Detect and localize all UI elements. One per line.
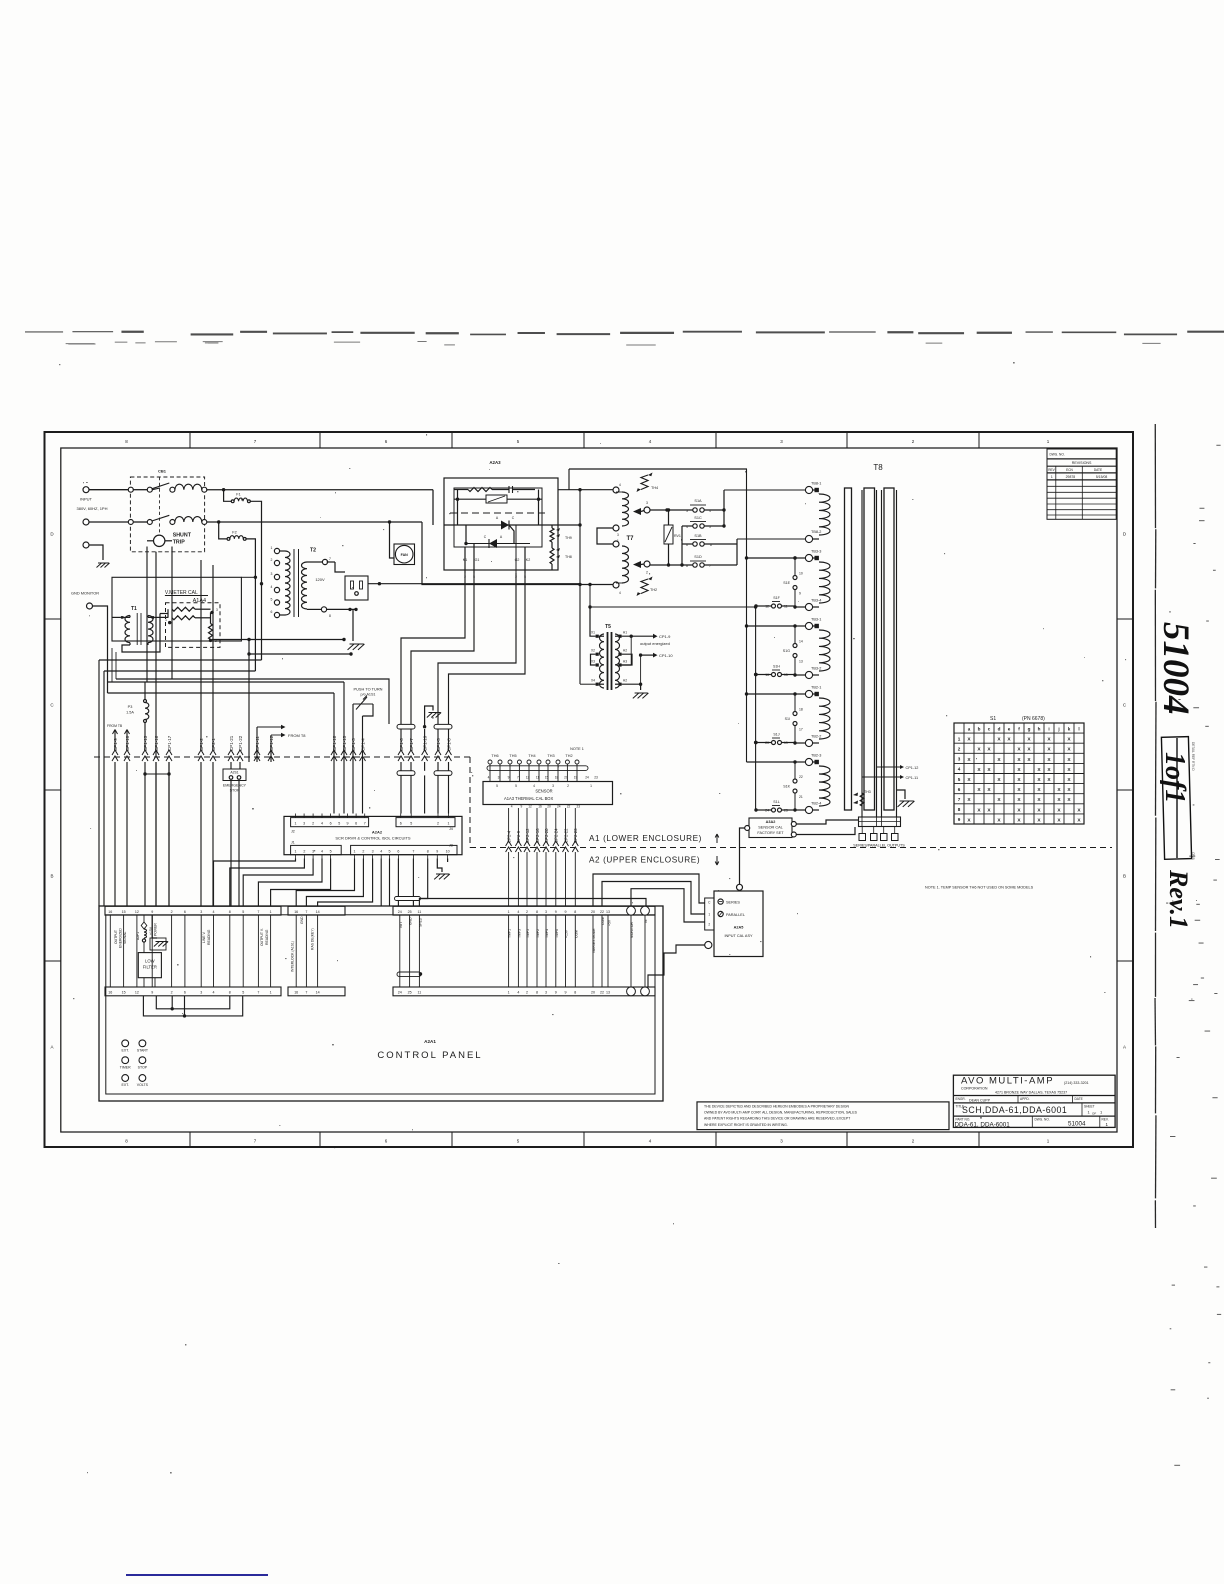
revision table bbox=[1047, 449, 1116, 519]
svg-text:7: 7 bbox=[329, 557, 331, 561]
svg-text:24: 24 bbox=[557, 805, 561, 809]
svg-text:22: 22 bbox=[600, 991, 604, 995]
svg-text:18: 18 bbox=[799, 708, 803, 712]
svg-text:A1A3 THERMAL CAL BOX: A1A3 THERMAL CAL BOX bbox=[504, 796, 553, 801]
wires A2A2 J3 to panel bbox=[296, 859, 428, 907]
svg-text:17: 17 bbox=[799, 728, 803, 732]
svg-text:TB3-1: TB3-1 bbox=[811, 618, 821, 622]
svg-text:3: 3 bbox=[545, 991, 547, 995]
svg-text:OWNED BY AVO MULTI-AMP CORP. A: OWNED BY AVO MULTI-AMP CORP. ALL DESIGN,… bbox=[704, 1111, 858, 1115]
thermal TH4 bbox=[637, 473, 659, 493]
svg-text:9: 9 bbox=[799, 592, 801, 596]
svg-text:4: 4 bbox=[619, 591, 621, 595]
svg-text:5: 5 bbox=[242, 910, 244, 914]
sensor cal box A3A2 bbox=[745, 818, 859, 838]
svg-text:READING: READING bbox=[207, 929, 211, 945]
svg-text:TH3: TH3 bbox=[864, 790, 871, 794]
svg-text:S1I: S1I bbox=[785, 717, 790, 721]
svg-text:TMP2: TMP2 bbox=[536, 929, 540, 938]
svg-text:G2: G2 bbox=[515, 558, 520, 562]
svg-text:ENGR.: ENGR. bbox=[956, 1097, 966, 1101]
svg-text:1: 1 bbox=[708, 913, 710, 917]
svg-text:F1: F1 bbox=[236, 493, 240, 497]
svg-text:TIMER: TIMER bbox=[120, 1065, 131, 1069]
thermal breaker TH9 bbox=[550, 528, 572, 542]
svg-text:i: i bbox=[1048, 726, 1049, 731]
ground T8 output bbox=[897, 790, 915, 807]
svg-text:COM: COM bbox=[574, 930, 578, 938]
svg-text:5: 5 bbox=[515, 784, 517, 788]
svg-text:6: 6 bbox=[184, 910, 186, 914]
svg-text:INPUT CAL ASY: INPUT CAL ASY bbox=[724, 934, 753, 938]
svg-text:1: 1 bbox=[270, 910, 272, 914]
svg-text:S1D: S1D bbox=[694, 555, 702, 559]
svg-text:8: 8 bbox=[536, 910, 538, 914]
thermal cal box A1A3 bbox=[483, 782, 613, 805]
svg-text:51004: 51004 bbox=[1068, 1121, 1086, 1128]
svg-text:5: 5 bbox=[389, 850, 391, 854]
svg-text:X4: X4 bbox=[591, 679, 595, 683]
svg-text:SIGNAL: SIGNAL bbox=[123, 931, 127, 944]
svg-text:24: 24 bbox=[398, 991, 402, 995]
svg-text:3: 3 bbox=[617, 533, 619, 537]
svg-text:H1: H1 bbox=[623, 631, 627, 635]
transformer T7 bbox=[597, 483, 650, 595]
svg-text:23: 23 bbox=[577, 805, 581, 809]
svg-text:A2S1: A2S1 bbox=[230, 771, 238, 775]
svg-text:B: B bbox=[1123, 874, 1126, 879]
svg-text:1: 1 bbox=[508, 910, 510, 914]
svg-text:DWG. NO.: DWG. NO. bbox=[1050, 453, 1065, 457]
svg-text:2: 2 bbox=[567, 784, 569, 788]
svg-text:IN: IN bbox=[644, 919, 648, 923]
svg-text:1: 1 bbox=[165, 618, 167, 622]
switch table S1 PN 6678 bbox=[954, 716, 1084, 824]
svg-text:INTERLOCK (A1S1): INTERLOCK (A1S1) bbox=[291, 941, 295, 972]
wire bus left risers bbox=[99, 648, 116, 682]
svg-text:TH3: TH3 bbox=[547, 754, 554, 758]
outlet receptacle 120V bbox=[327, 562, 368, 600]
svg-text:CP1-9: CP1-9 bbox=[659, 634, 671, 639]
svg-text:TH6: TH6 bbox=[491, 754, 498, 758]
svg-text:X2: X2 bbox=[591, 649, 595, 653]
input terminals bbox=[77, 487, 131, 548]
svg-text:K2: K2 bbox=[526, 558, 530, 562]
svg-text:2: 2 bbox=[646, 571, 648, 575]
wires CP1 row continuation below bbox=[115, 560, 390, 906]
svg-text:PUSH TO TURN: PUSH TO TURN bbox=[354, 687, 383, 692]
svg-text:13: 13 bbox=[799, 660, 803, 664]
svg-text:INIT: INIT bbox=[399, 922, 403, 928]
svg-text:6: 6 bbox=[184, 991, 186, 995]
T8 winding TB2-3/4 group with switches S1K S1L bbox=[754, 754, 830, 814]
switch S1B bbox=[682, 534, 737, 547]
svg-text:6: 6 bbox=[958, 787, 961, 792]
svg-text:1.5A: 1.5A bbox=[126, 711, 134, 715]
svg-text:A2A3: A2A3 bbox=[489, 460, 501, 465]
svg-text:380V, 60HZ, 1PH: 380V, 60HZ, 1PH bbox=[77, 506, 108, 511]
terminals ext volts bbox=[121, 1075, 148, 1088]
svg-text:TB2-1: TB2-1 bbox=[811, 686, 821, 690]
svg-text:READING: READING bbox=[265, 929, 269, 945]
svg-text:3: 3 bbox=[372, 850, 374, 854]
svg-text:9: 9 bbox=[555, 910, 557, 914]
svg-text:STOP: STOP bbox=[138, 1065, 148, 1069]
svg-text:+15V: +15V bbox=[565, 929, 569, 938]
svg-text:1: 1 bbox=[354, 850, 356, 854]
voltmeter cal box A1A4 bbox=[112, 577, 241, 647]
svg-text:5: 5 bbox=[338, 822, 340, 826]
svg-text:4: 4 bbox=[958, 767, 961, 772]
panel internal loops bbox=[143, 996, 242, 1018]
svg-text:2: 2 bbox=[312, 822, 314, 826]
svg-text:T8: T8 bbox=[873, 463, 883, 472]
svg-text:CP1-11: CP1-11 bbox=[906, 776, 919, 780]
svg-text:GND MONITOR: GND MONITOR bbox=[71, 591, 99, 596]
wire T2 pin8 to ground bbox=[327, 608, 365, 650]
svg-text:16: 16 bbox=[538, 805, 542, 809]
signal CP1-10 bbox=[622, 636, 674, 698]
SCR assembly A2A3 bbox=[444, 460, 580, 579]
svg-text:a: a bbox=[968, 726, 971, 731]
svg-text:9: 9 bbox=[151, 910, 153, 914]
svg-text:FAN: FAN bbox=[401, 553, 409, 557]
T8 winding TB8-1 TB8-2 bbox=[805, 482, 830, 543]
svg-text:7: 7 bbox=[364, 822, 366, 826]
signal CP1-11 bbox=[862, 775, 918, 780]
svg-text:GND: GND bbox=[409, 917, 413, 925]
wire switch bus right bbox=[754, 605, 757, 810]
svg-text:1: 1 bbox=[958, 736, 961, 741]
svg-text:S1K: S1K bbox=[783, 785, 790, 789]
svg-text:OUTPUT: OUTPUT bbox=[114, 930, 118, 944]
svg-text:d: d bbox=[998, 726, 1001, 731]
svg-text:7: 7 bbox=[257, 910, 259, 914]
svg-text:AVO MULTI-AMP: AVO MULTI-AMP bbox=[961, 1076, 1054, 1087]
svg-text:TMP1: TMP1 bbox=[508, 929, 512, 938]
svg-text:F2: F2 bbox=[232, 530, 236, 534]
svg-text:15: 15 bbox=[122, 991, 126, 995]
svg-text:6: 6 bbox=[397, 850, 399, 854]
svg-text:4: 4 bbox=[533, 784, 535, 788]
svg-text:4: 4 bbox=[380, 850, 382, 854]
svg-text:FROM TB: FROM TB bbox=[107, 724, 123, 728]
svg-text:h: h bbox=[1038, 726, 1041, 731]
sheet border frame bbox=[45, 432, 1134, 1147]
svg-text:SHEET: SHEET bbox=[1084, 1105, 1095, 1109]
svg-text:S1C: S1C bbox=[694, 516, 702, 520]
svg-text:REVISIONS: REVISIONS bbox=[1072, 461, 1092, 465]
svg-text:/SERIES MODE: /SERIES MODE bbox=[592, 928, 596, 953]
svg-text:TH5: TH5 bbox=[509, 754, 516, 758]
svg-text:EXT.: EXT. bbox=[121, 1083, 129, 1087]
ground panel bbox=[150, 915, 168, 950]
svg-text:6: 6 bbox=[355, 822, 357, 826]
svg-text:TH8: TH8 bbox=[565, 555, 572, 559]
wire A1A4 ground link bbox=[212, 638, 353, 762]
svg-text:22: 22 bbox=[567, 805, 571, 809]
svg-text:9: 9 bbox=[521, 805, 523, 809]
svg-text:A: A bbox=[50, 1045, 53, 1050]
svg-text:J2: J2 bbox=[291, 830, 295, 834]
svg-text:TMP3: TMP3 bbox=[517, 929, 521, 938]
svg-text:8: 8 bbox=[427, 850, 429, 854]
svg-text:PARALLEL: PARALLEL bbox=[726, 913, 745, 917]
svg-text:A2 (UPPER ENCLOSURE): A2 (UPPER ENCLOSURE) bbox=[589, 856, 700, 865]
svg-text:25: 25 bbox=[408, 991, 412, 995]
svg-text:TH2: TH2 bbox=[650, 588, 657, 592]
svg-text:13: 13 bbox=[606, 910, 610, 914]
fuse P3 bbox=[126, 682, 149, 750]
arrows from TB top-left bbox=[107, 724, 130, 750]
enclosure labels A1 A2 bbox=[589, 834, 719, 865]
wires A2A2 J1 to panel bbox=[214, 859, 331, 907]
svg-text:DEAN CUPP: DEAN CUPP bbox=[969, 1098, 991, 1102]
svg-text:DATE: DATE bbox=[1094, 468, 1102, 472]
svg-text:16: 16 bbox=[108, 991, 112, 995]
svg-text:1: 1 bbox=[295, 850, 297, 854]
svg-text:3: 3 bbox=[312, 850, 314, 854]
wires panel to input cal bbox=[397, 874, 705, 987]
svg-text:4: 4 bbox=[511, 805, 513, 809]
svg-text:VOLTS: VOLTS bbox=[137, 1083, 149, 1087]
svg-text:SHLD: SHLD bbox=[419, 917, 423, 927]
svg-text:TB3-4: TB3-4 bbox=[811, 599, 821, 603]
switch S1C bbox=[682, 516, 724, 529]
signal CP1-9 output energized bbox=[622, 634, 672, 646]
svg-text:H2: H2 bbox=[623, 679, 627, 683]
svg-text:14: 14 bbox=[316, 910, 320, 914]
svg-text:4: 4 bbox=[517, 991, 519, 995]
svg-text:j: j bbox=[1057, 726, 1059, 731]
svg-text:2: 2 bbox=[708, 923, 710, 927]
svg-text:TRIP: TRIP bbox=[173, 540, 186, 546]
cable shield markers bbox=[397, 724, 452, 775]
thermal breaker TH8 bbox=[550, 525, 572, 570]
terminals ext start bbox=[121, 1040, 148, 1053]
svg-text:4: 4 bbox=[271, 585, 273, 589]
svg-text:G1: G1 bbox=[475, 558, 480, 562]
svg-text:25: 25 bbox=[408, 910, 412, 914]
svg-text:7: 7 bbox=[257, 991, 259, 995]
ground shield CP1-19 bbox=[425, 706, 442, 814]
svg-text:EMERGENCY: EMERGENCY bbox=[223, 784, 247, 788]
svg-text:1of1: 1of1 bbox=[1159, 752, 1190, 803]
svg-text:J1: J1 bbox=[291, 841, 295, 845]
svg-text:20: 20 bbox=[547, 805, 551, 809]
svg-text:SERIES: SERIES bbox=[726, 901, 740, 905]
svg-text:15: 15 bbox=[122, 910, 126, 914]
driver box A2A2 bbox=[284, 814, 462, 859]
svg-text:T7: T7 bbox=[626, 536, 634, 542]
svg-text:9: 9 bbox=[958, 817, 961, 822]
svg-text:CP1-17: CP1-17 bbox=[167, 735, 172, 751]
svg-text:THE DEVICE DEPICTED AND DESCRI: THE DEVICE DEPICTED AND DESCRIBED HEREON… bbox=[704, 1104, 849, 1108]
svg-text:3: 3 bbox=[646, 501, 648, 505]
svg-text:SHUNT: SHUNT bbox=[173, 533, 192, 539]
wire SCR output bus bbox=[422, 469, 747, 684]
svg-text:1: 1 bbox=[295, 822, 297, 826]
varistor RV1 bbox=[664, 508, 681, 566]
svg-text:CP1-22: CP1-22 bbox=[238, 735, 243, 751]
svg-text:15: 15 bbox=[545, 776, 549, 780]
svg-text:9: 9 bbox=[347, 822, 349, 826]
circuit breaker CB1 bbox=[128, 469, 207, 552]
svg-text:4: 4 bbox=[517, 910, 519, 914]
push-to-turn switch A1S1 bbox=[353, 687, 383, 763]
svg-text:NOTE 1: NOTE 1 bbox=[570, 747, 584, 751]
svg-text:4: 4 bbox=[213, 991, 215, 995]
svg-text:b: b bbox=[978, 726, 981, 731]
svg-text:SERIES/PARALLEL OUTPUTS: SERIES/PARALLEL OUTPUTS bbox=[853, 844, 905, 848]
svg-text:POWER: POWER bbox=[154, 923, 158, 936]
svg-text:14: 14 bbox=[799, 640, 803, 644]
svg-text:output energized: output energized bbox=[640, 641, 670, 646]
proprietary notice bbox=[697, 1102, 949, 1130]
svg-text:29878: 29878 bbox=[1066, 475, 1076, 479]
svg-text:2: 2 bbox=[437, 822, 439, 826]
svg-text:5: 5 bbox=[330, 850, 332, 854]
svg-text:20: 20 bbox=[591, 910, 595, 914]
svg-text:TH4: TH4 bbox=[651, 486, 658, 490]
title block bbox=[953, 1075, 1115, 1128]
sensor thermistor terminals bbox=[487, 747, 598, 809]
svg-text:S1H: S1H bbox=[773, 665, 780, 669]
svg-text:APPD.: APPD. bbox=[1020, 1097, 1030, 1101]
low pass filter bbox=[138, 953, 161, 987]
svg-text:12: 12 bbox=[135, 991, 139, 995]
svg-text:A: A bbox=[1123, 1045, 1126, 1050]
svg-text:CONTROL PANEL: CONTROL PANEL bbox=[377, 1050, 482, 1061]
wire phase B bbox=[207, 521, 422, 523]
svg-text:S1B: S1B bbox=[694, 534, 702, 538]
svg-text:OF: OF bbox=[1092, 1112, 1096, 1116]
svg-text:EXT.: EXT. bbox=[121, 1049, 129, 1053]
svg-text:10: 10 bbox=[446, 850, 450, 854]
svg-text:CP1-12: CP1-12 bbox=[906, 766, 919, 770]
svg-text:(PN 6678): (PN 6678) bbox=[1022, 716, 1045, 722]
svg-text:(214) 333-3201: (214) 333-3201 bbox=[1064, 1081, 1089, 1085]
transformer T5 bbox=[591, 624, 633, 690]
svg-text:LOW: LOW bbox=[145, 959, 155, 964]
arrows from T8 bbox=[257, 725, 306, 762]
svg-text:22: 22 bbox=[600, 910, 604, 914]
svg-text:3: 3 bbox=[498, 776, 500, 780]
svg-text:RAS DE(KEY): RAS DE(KEY) bbox=[311, 928, 315, 950]
svg-text:c: c bbox=[988, 726, 991, 731]
svg-text:e: e bbox=[1008, 726, 1011, 731]
svg-text:1: 1 bbox=[271, 546, 273, 550]
svg-text:2: 2 bbox=[526, 991, 528, 995]
svg-text:9: 9 bbox=[565, 910, 567, 914]
svg-text:9: 9 bbox=[565, 991, 567, 995]
T8 output wires bbox=[862, 490, 897, 817]
svg-text:A2A1: A2A1 bbox=[424, 1039, 436, 1044]
connector CP1 feedthrough row bbox=[112, 735, 452, 761]
svg-text:5: 5 bbox=[242, 991, 244, 995]
svg-text:9: 9 bbox=[555, 991, 557, 995]
svg-text:ECN: ECN bbox=[1066, 468, 1073, 472]
svg-text:T1: T1 bbox=[131, 606, 137, 612]
svg-text:S1J: S1J bbox=[773, 733, 779, 737]
wires left riser bundle bbox=[99, 660, 389, 906]
svg-text:11: 11 bbox=[418, 910, 422, 914]
svg-text:INPUT: INPUT bbox=[80, 497, 93, 502]
shunt trip coil bbox=[147, 533, 192, 547]
svg-text:A1 (LOWER ENCLOSURE): A1 (LOWER ENCLOSURE) bbox=[589, 834, 702, 843]
svg-text:1: 1 bbox=[448, 822, 450, 826]
svg-text:S1A: S1A bbox=[694, 499, 702, 503]
svg-text:4: 4 bbox=[619, 483, 621, 487]
svg-text:1: 1 bbox=[590, 784, 592, 788]
svg-text:3: 3 bbox=[958, 757, 961, 762]
svg-text:DATE: DATE bbox=[1075, 1097, 1083, 1101]
svg-text:7: 7 bbox=[305, 991, 307, 995]
svg-text:TH2: TH2 bbox=[565, 754, 572, 758]
svg-text:S1L: S1L bbox=[773, 800, 779, 804]
svg-text:DDA-61, DDA-6001: DDA-61, DDA-6001 bbox=[955, 1121, 1011, 1128]
svg-text:4: 4 bbox=[213, 910, 215, 914]
svg-text:8: 8 bbox=[536, 991, 538, 995]
T8 winding TB3-1/2 group with switches S1G S1H bbox=[754, 618, 830, 679]
wires shunt trip risers bbox=[147, 547, 172, 758]
svg-text:p/o A1S1: p/o A1S1 bbox=[361, 693, 376, 697]
svg-text:11: 11 bbox=[536, 776, 540, 780]
svg-text:1: 1 bbox=[270, 991, 272, 995]
svg-text:WHERE EXPLICIT RIGHT IS GRANTE: WHERE EXPLICIT RIGHT IS GRANTED IN WRITI… bbox=[704, 1123, 788, 1127]
svg-text:6: 6 bbox=[400, 822, 402, 826]
svg-text:51004: 51004 bbox=[1155, 622, 1196, 715]
svg-text:H3: H3 bbox=[623, 660, 627, 664]
svg-text:3: 3 bbox=[200, 910, 202, 914]
thermal TH3 bbox=[853, 790, 871, 806]
svg-text:FACTORY SET: FACTORY SET bbox=[757, 831, 784, 835]
svg-text:DETAIL REF RTN D: DETAIL REF RTN D bbox=[1191, 742, 1195, 771]
svg-text:AND PATENT RIGHTS REGARDING TH: AND PATENT RIGHTS REGARDING THIS DEVICE … bbox=[704, 1117, 851, 1121]
svg-text:5: 5 bbox=[410, 822, 412, 826]
svg-text:11: 11 bbox=[418, 991, 422, 995]
fan motor bbox=[388, 520, 415, 564]
svg-text:2: 2 bbox=[526, 910, 528, 914]
svg-text:k: k bbox=[1068, 726, 1071, 731]
signal CP1-12 bbox=[877, 765, 919, 770]
svg-text:TB3-2: TB3-2 bbox=[811, 667, 821, 671]
series/parallel output terminal strip bbox=[853, 817, 905, 848]
svg-text:24: 24 bbox=[585, 776, 589, 780]
svg-text:7: 7 bbox=[517, 776, 519, 780]
svg-text:3: 3 bbox=[552, 784, 554, 788]
svg-text:CB1: CB1 bbox=[158, 469, 167, 474]
svg-text:A3A2: A3A2 bbox=[766, 820, 776, 824]
svg-text:12: 12 bbox=[528, 805, 532, 809]
transformer T8 bbox=[845, 463, 895, 810]
svg-text:23: 23 bbox=[594, 776, 598, 780]
svg-text:TH9: TH9 bbox=[565, 536, 572, 540]
svg-text:8: 8 bbox=[329, 614, 331, 618]
svg-text:2: 2 bbox=[958, 747, 961, 752]
thermal TH2 bbox=[637, 577, 658, 597]
svg-text:21: 21 bbox=[799, 795, 803, 799]
svg-text:2: 2 bbox=[362, 850, 364, 854]
wire T5 X4 feed bbox=[580, 683, 596, 685]
svg-text:TMP6: TMP6 bbox=[555, 929, 559, 938]
wire T5 X1 feed bbox=[588, 585, 755, 637]
svg-text:16: 16 bbox=[294, 991, 298, 995]
svg-text:5: 5 bbox=[496, 784, 498, 788]
svg-text:8: 8 bbox=[574, 991, 576, 995]
svg-text:A2A5: A2A5 bbox=[734, 926, 744, 930]
svg-text:+5V: +5V bbox=[608, 919, 612, 926]
